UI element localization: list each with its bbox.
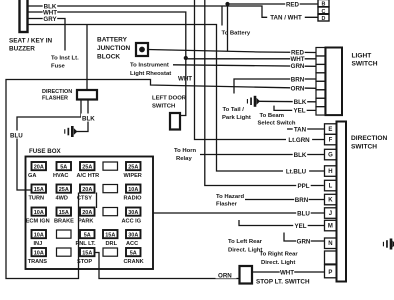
pin L bbox=[325, 180, 337, 191]
label BLK light switch bbox=[293, 98, 308, 105]
wire PPL net vertical to direction switch pin L bbox=[205, 0, 324, 186]
label BLK pin G bbox=[293, 151, 308, 158]
wire RED branch up to connector B bbox=[228, 4, 319, 52]
label WHT buzzer wire bbox=[43, 8, 58, 15]
svg-text:BLK: BLK bbox=[82, 116, 95, 123]
svg-text:10A: 10A bbox=[128, 187, 138, 193]
label RED light switch bbox=[290, 48, 305, 55]
fuse 15A row2 col1 bbox=[32, 185, 47, 193]
empty fuse socket bbox=[103, 185, 118, 193]
label WHT light switch bbox=[290, 55, 305, 62]
svg-text:Direct. Light: Direct. Light bbox=[261, 260, 295, 266]
svg-text:To Beam: To Beam bbox=[260, 113, 284, 119]
pin P bbox=[325, 265, 337, 278]
svg-text:GA: GA bbox=[28, 173, 36, 179]
svg-text:10A: 10A bbox=[34, 233, 44, 239]
label WHT pin P bbox=[280, 268, 295, 275]
label RED top wire bbox=[285, 0, 300, 7]
wire ORN loop: light switch pin 5 around left side to CTSY fuse rail bbox=[6, 80, 316, 279]
empty fuse socket bbox=[57, 230, 72, 238]
svg-text:To Horn: To Horn bbox=[174, 148, 197, 154]
svg-text:YEL: YEL bbox=[293, 108, 305, 115]
svg-text:Lt.GRN: Lt.GRN bbox=[288, 137, 310, 144]
ground symbol at light switch BLK wire bbox=[254, 96, 257, 107]
svg-text:Light Rheostat: Light Rheostat bbox=[130, 71, 171, 77]
svg-text:M: M bbox=[328, 224, 333, 230]
svg-text:BRN: BRN bbox=[295, 197, 309, 204]
empty fuse socket bbox=[103, 208, 118, 216]
svg-text:BRAKE: BRAKE bbox=[54, 219, 74, 225]
svg-text:ORN: ORN bbox=[218, 273, 232, 280]
svg-text:PNL LT.: PNL LT. bbox=[76, 241, 96, 247]
label TAN direction switch pin E bbox=[293, 125, 308, 132]
label ORN stop wire bbox=[216, 271, 237, 278]
connector C bbox=[318, 7, 329, 14]
svg-text:TURN: TURN bbox=[29, 196, 45, 202]
wire YEL net: to light switch pin 8 bbox=[274, 106, 316, 111]
svg-text:GRY: GRY bbox=[43, 16, 57, 23]
wire BRN net: light switch pin 4 to tail/park lights bbox=[234, 79, 316, 94]
wire GRN net: right rear direction light to pin N bbox=[284, 233, 325, 242]
pin M bbox=[325, 220, 337, 231]
svg-text:PPL: PPL bbox=[297, 183, 309, 190]
svg-text:Relay: Relay bbox=[176, 156, 192, 162]
empty fuse socket bbox=[103, 248, 118, 256]
svg-text:WIPER: WIPER bbox=[124, 173, 142, 179]
svg-text:F: F bbox=[329, 138, 333, 144]
wire GRY net: buzzer to Inst Lt. fuse bbox=[27, 19, 65, 51]
fuse 30A row3 col5 bbox=[126, 208, 141, 216]
wire BLU net: flasher left pin to TURN fuse bbox=[17, 100, 81, 191]
svg-text:WHT: WHT bbox=[178, 76, 192, 83]
svg-text:SWITCH: SWITCH bbox=[352, 61, 378, 68]
svg-text:CRANK: CRANK bbox=[124, 259, 144, 265]
label BLU flasher wire bbox=[9, 131, 25, 139]
wire flasher right pin to ground bbox=[76, 100, 88, 132]
wire RED net: battery junction block to light switch pin 1 bbox=[148, 50, 317, 53]
label LT.BLU pin H bbox=[283, 167, 309, 174]
svg-text:30A: 30A bbox=[128, 233, 138, 239]
svg-text:5A: 5A bbox=[130, 251, 137, 257]
svg-text:25A: 25A bbox=[59, 187, 69, 193]
svg-text:15A: 15A bbox=[34, 187, 44, 193]
pin K bbox=[325, 194, 337, 205]
fuse 20A row3 col3 bbox=[80, 208, 95, 216]
wire buzzer 4th pin to direction switch pin H (LT.BLU) bbox=[27, 25, 325, 172]
fuse 20A row2 col3 bbox=[80, 185, 95, 193]
svg-text:WHT: WHT bbox=[290, 56, 304, 63]
svg-text:Select Switch: Select Switch bbox=[258, 121, 296, 127]
svg-text:Flasher: Flasher bbox=[216, 202, 238, 208]
fuse 5A row4 col3 bbox=[80, 230, 95, 238]
stop light switch component bbox=[240, 266, 253, 284]
svg-text:RADIO: RADIO bbox=[124, 196, 143, 202]
svg-text:ACC IG: ACC IG bbox=[122, 219, 142, 225]
fuse 20A row1 col1 bbox=[32, 162, 47, 170]
label BLK buzzer wire bbox=[43, 2, 58, 9]
label ORN light switch bbox=[290, 84, 305, 91]
svg-text:ACC: ACC bbox=[126, 241, 138, 247]
light switch body bbox=[326, 48, 343, 116]
svg-text:LEFT DOOR: LEFT DOOR bbox=[152, 96, 187, 102]
fuse 5A row5 col5 bbox=[126, 248, 141, 256]
connector D bbox=[318, 14, 329, 21]
fuse 10A row5 col1 bbox=[32, 248, 47, 256]
pin J bbox=[325, 208, 337, 219]
wire TAN net: beam select switch to direction switch pin E bbox=[287, 128, 325, 130]
fuse box outline bbox=[26, 157, 154, 270]
svg-text:GRN: GRN bbox=[297, 238, 311, 245]
fuse 15A row5 col3 bbox=[80, 248, 95, 256]
svg-text:STOP: STOP bbox=[77, 259, 92, 265]
wire WHT branch to light switch pin 2 bbox=[186, 58, 316, 60]
svg-text:J: J bbox=[329, 211, 332, 217]
svg-text:HVAC: HVAC bbox=[53, 173, 68, 179]
connector seat/key-in buzzer bbox=[20, 0, 28, 32]
svg-text:20A: 20A bbox=[34, 165, 44, 171]
battery junction block square with terminal dot bbox=[136, 43, 148, 56]
svg-text:To Hazard: To Hazard bbox=[216, 194, 244, 200]
svg-text:P: P bbox=[328, 270, 332, 276]
wire YEL net: left rear direction light to pin M bbox=[239, 220, 325, 226]
svg-text:ORN: ORN bbox=[291, 85, 305, 92]
wire BLK net: ground to light switch pin 7 bbox=[258, 100, 316, 103]
label BLK flasher ground wire bbox=[81, 114, 96, 122]
svg-text:DRL: DRL bbox=[106, 241, 118, 247]
label YEL pin M bbox=[293, 222, 308, 229]
fuse 5A row1 col2 bbox=[57, 162, 72, 170]
fuse 25A row1 col5 bbox=[126, 162, 141, 170]
wire LT.GRN net vertical to direction switch pin F bbox=[195, 0, 325, 140]
svg-text:30A: 30A bbox=[128, 210, 138, 216]
svg-text:E: E bbox=[328, 127, 332, 133]
fuse 30A row4 col5 bbox=[126, 230, 141, 238]
svg-text:To Inst Lt.: To Inst Lt. bbox=[51, 56, 79, 62]
svg-text:A/C HTR: A/C HTR bbox=[77, 173, 100, 179]
svg-text:10A: 10A bbox=[34, 251, 44, 257]
svg-text:FUSE BOX: FUSE BOX bbox=[29, 148, 62, 155]
pin E bbox=[325, 124, 337, 135]
svg-text:To Instrument: To Instrument bbox=[130, 63, 169, 69]
wire branch down to direction flasher bbox=[86, 25, 88, 91]
wire GRN net: instrument light rheostat to light switch pin 3 bbox=[173, 65, 316, 67]
svg-text:BATTERY: BATTERY bbox=[97, 37, 128, 44]
empty pin socket between N and P bbox=[325, 251, 337, 264]
svg-text:25A: 25A bbox=[82, 165, 92, 171]
empty fuse socket bbox=[103, 162, 118, 170]
label PPL pin L bbox=[296, 182, 311, 189]
svg-text:H: H bbox=[328, 169, 332, 175]
svg-text:WHT: WHT bbox=[280, 269, 294, 276]
svg-text:20A: 20A bbox=[82, 187, 92, 193]
svg-text:DIRECTION: DIRECTION bbox=[351, 135, 388, 142]
fuse 15A row3 col2 bbox=[57, 208, 72, 216]
svg-text:RED: RED bbox=[286, 1, 300, 8]
svg-text:SWITCH: SWITCH bbox=[351, 144, 377, 151]
wire BRN hazard flasher net to direction switch pin K bbox=[245, 199, 325, 201]
svg-text:N: N bbox=[328, 241, 332, 247]
svg-text:BLOCK: BLOCK bbox=[97, 54, 120, 61]
svg-text:STOP LT. SWITCH: STOP LT. SWITCH bbox=[256, 279, 310, 286]
svg-text:Park Light: Park Light bbox=[222, 115, 251, 121]
node junction dot WHT net bbox=[184, 56, 188, 60]
svg-text:25A: 25A bbox=[128, 165, 138, 171]
ground symbol right of direction switch bbox=[390, 239, 393, 250]
light switch pin header 8 pins bbox=[316, 48, 325, 56]
svg-text:To Right Rear: To Right Rear bbox=[260, 252, 299, 258]
svg-text:5A: 5A bbox=[84, 233, 91, 239]
svg-text:Direct. Light: Direct. Light bbox=[228, 248, 262, 254]
svg-text:Lt.BLU: Lt.BLU bbox=[286, 168, 307, 175]
svg-text:To Left Rear: To Left Rear bbox=[228, 239, 263, 245]
fuse 25A row2 col2 bbox=[57, 185, 72, 193]
svg-text:TAN: TAN bbox=[294, 126, 307, 133]
pin F bbox=[325, 134, 337, 145]
svg-text:5A: 5A bbox=[60, 165, 67, 171]
svg-text:PARK: PARK bbox=[78, 219, 93, 225]
wire CTSY-PARK right rail bbox=[96, 193, 98, 209]
label BRN pin K bbox=[294, 196, 309, 203]
label GRN pin N bbox=[296, 237, 311, 244]
wire To Battery stub bbox=[221, 6, 223, 26]
fuse 25A row1 col3 bbox=[80, 162, 95, 170]
svg-text:BLK: BLK bbox=[294, 152, 307, 159]
svg-text:ECM IGN: ECM IGN bbox=[26, 219, 50, 225]
svg-text:GRN: GRN bbox=[291, 63, 305, 70]
fuse 10A row3 col1 bbox=[32, 208, 47, 216]
pin N bbox=[325, 238, 337, 249]
svg-text:15A: 15A bbox=[82, 251, 92, 257]
fuse 10A row4 col1 bbox=[32, 230, 47, 238]
label GRN light switch bbox=[290, 62, 305, 69]
label LT.GRN pin F bbox=[286, 136, 312, 143]
wire BLU net: fuse box to direction switch pin J bbox=[153, 212, 325, 214]
wire BLK horn relay net to direction switch pin G bbox=[200, 154, 325, 156]
svg-text:Fuse: Fuse bbox=[51, 64, 65, 70]
connector B bbox=[318, 0, 329, 7]
svg-text:L: L bbox=[329, 184, 333, 190]
wire WHT net: buzzer down to left door switch bbox=[27, 12, 186, 116]
label TAN / WHT wire bbox=[267, 14, 305, 21]
direction flasher component bbox=[77, 90, 97, 100]
svg-text:10A: 10A bbox=[34, 210, 44, 216]
svg-text:K: K bbox=[328, 198, 333, 204]
svg-text:SEAT / KEY IN: SEAT / KEY IN bbox=[9, 38, 52, 45]
svg-text:YEL: YEL bbox=[294, 223, 306, 230]
fuse 15A row4 col4 bbox=[103, 230, 118, 238]
svg-text:TAN / WHT: TAN / WHT bbox=[270, 15, 302, 22]
label BRN light switch bbox=[290, 75, 305, 82]
svg-text:FLASHER: FLASHER bbox=[42, 96, 68, 102]
svg-text:20A: 20A bbox=[82, 210, 92, 216]
pin G bbox=[325, 149, 337, 160]
svg-text:SWITCH: SWITCH bbox=[152, 104, 175, 110]
svg-text:To Tail /: To Tail / bbox=[223, 107, 245, 113]
svg-text:15A: 15A bbox=[105, 233, 115, 239]
svg-text:CTSY: CTSY bbox=[77, 196, 92, 202]
svg-text:4WD: 4WD bbox=[56, 196, 68, 202]
label YEL light switch bbox=[292, 107, 307, 114]
svg-text:LIGHT: LIGHT bbox=[352, 53, 372, 60]
svg-text:BUZZER: BUZZER bbox=[9, 46, 35, 53]
left door switch component bbox=[170, 113, 180, 130]
wire WHT net: stop light switch to pin P bbox=[252, 271, 325, 273]
svg-text:15A: 15A bbox=[59, 210, 69, 216]
svg-text:BRN: BRN bbox=[291, 76, 305, 83]
svg-text:DIRECTION: DIRECTION bbox=[42, 89, 72, 95]
node junction dot RED net bbox=[225, 2, 229, 6]
svg-text:INJ: INJ bbox=[34, 241, 43, 247]
pin H bbox=[325, 166, 337, 177]
ground symbol at direction flasher bbox=[71, 126, 74, 137]
svg-text:BLU: BLU bbox=[10, 133, 23, 140]
svg-text:BLU: BLU bbox=[297, 210, 310, 217]
wire ORN stop net: STOP fuse to stop light switch bbox=[94, 253, 240, 279]
svg-text:D: D bbox=[322, 16, 326, 22]
label GRY buzzer wire bbox=[43, 15, 58, 22]
svg-text:TRANS: TRANS bbox=[28, 259, 48, 265]
svg-text:G: G bbox=[328, 153, 333, 159]
label BLU pin J bbox=[296, 209, 311, 216]
fuse 10A row2 col5 bbox=[126, 185, 141, 193]
svg-text:JUNCTION: JUNCTION bbox=[97, 45, 131, 52]
wire BLK net: buzzer to connector D via TAN/WHT jog bbox=[27, 6, 318, 17]
svg-text:BLK: BLK bbox=[294, 99, 307, 106]
direction switch body bbox=[337, 122, 347, 282]
svg-text:To Battery: To Battery bbox=[222, 31, 251, 37]
empty fuse socket bbox=[57, 248, 72, 256]
